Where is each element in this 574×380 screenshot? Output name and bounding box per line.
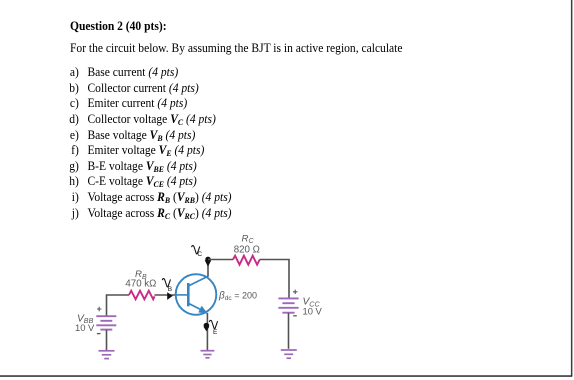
- resistor RB (470 k ohm): [129, 291, 155, 300]
- wire: VCC to ground: [288, 313, 290, 349]
- current arrow IE on emitter wire: [204, 327, 210, 332]
- plus sign VBB: [97, 307, 101, 311]
- battery VBB: [96, 316, 116, 329]
- transistor base lead: [176, 294, 187, 296]
- intro sentence: [70, 41, 403, 56]
- transistor Q1 (BJT) circle: [176, 274, 217, 315]
- svg-text:820 Ω: 820 Ω: [234, 244, 260, 255]
- wire: collector vertical: [207, 260, 209, 277]
- transistor base bar: [187, 283, 190, 306]
- svg-text:C: C: [197, 251, 202, 258]
- battery VCC: [278, 298, 298, 312]
- minus sign VBB: [97, 333, 101, 335]
- wire: RC to VCC corner: [260, 260, 290, 299]
- page border: right vertical line: [571, 0, 573, 377]
- ground (VCC): [281, 350, 297, 358]
- svg-text:B: B: [168, 286, 172, 293]
- wire: emitter to ground: [206, 313, 208, 350]
- list items: [69, 65, 79, 80]
- svg-text:E: E: [213, 329, 218, 336]
- svg-text:10 V: 10 V: [303, 306, 323, 317]
- current arrow IB on base wire: [167, 292, 173, 300]
- transistor emitter arrowhead: [199, 307, 206, 313]
- label IE: [209, 320, 217, 328]
- current arrow IC into collector: [205, 260, 212, 266]
- ground (VBB): [99, 351, 115, 359]
- heading: [70, 19, 167, 34]
- label IC: [192, 246, 200, 254]
- svg-text:βdc = 200: βdc = 200: [218, 290, 257, 302]
- page border: bottom horizontal line: [0, 375, 572, 377]
- minus sign VCC: [293, 315, 297, 317]
- svg-text:470 kΩ: 470 kΩ: [125, 279, 156, 290]
- ground (emitter): [201, 351, 215, 358]
- transistor emitter lead: [189, 303, 207, 312]
- wire: VBB to ground: [106, 330, 108, 351]
- node E junction dot: [204, 323, 210, 329]
- resistor RC (820 ohm): [233, 256, 260, 265]
- transistor collector lead: [189, 276, 209, 286]
- node C junction dot: [205, 257, 210, 262]
- wire: VBB top to RB left: [107, 295, 130, 316]
- plus sign VCC: [293, 290, 297, 294]
- wire: RB to base: [154, 294, 176, 296]
- wire: collector node to RC: [208, 259, 233, 261]
- svg-text:10 V: 10 V: [75, 322, 95, 333]
- label IB: [162, 279, 170, 287]
